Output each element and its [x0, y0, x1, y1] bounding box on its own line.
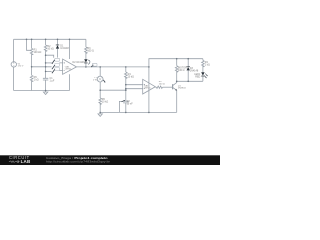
resistor R2b [30, 75, 33, 82]
logo capacitor glyph [16, 160, 20, 163]
transistor Q1 base bar [172, 84, 174, 89]
wire bus B output [77, 66, 149, 68]
wire OA2 output / R5 line [155, 86, 156, 88]
wire R2 top lead [45, 39, 47, 45]
diode D1 body [56, 45, 59, 49]
LED1 arrows [204, 74, 207, 78]
svg-text:10 kΩ: 10 kΩ [47, 47, 54, 50]
switch SW2 lever [52, 65, 55, 69]
resistor R5 [156, 86, 162, 88]
svg-text:D2 1N4148: D2 1N4148 [72, 61, 85, 64]
svg-text:RED: RED [195, 75, 200, 78]
LED bottom lead [202, 77, 204, 82]
wire R1 bottom to node [31, 54, 33, 67]
wire R6 bottom lead [99, 103, 101, 112]
wire R4b bottom / col [125, 77, 127, 100]
switch SW3 lever [52, 69, 55, 73]
wire D1 top lead [57, 39, 59, 44]
wire stub y62.9 [46, 62, 52, 64]
capacitor C2 [123, 101, 128, 103]
wire R5 to Q1 base [163, 86, 173, 88]
svg-text:1 kΩ: 1 kΩ [34, 78, 39, 81]
wire D3 leads [187, 59, 189, 82]
switch SW4 key box [92, 63, 97, 66]
svg-text:LM741: LM741 [65, 68, 72, 70]
svg-text:10 nF: 10 nF [127, 103, 134, 106]
svg-text:2N3904: 2N3904 [178, 88, 186, 90]
resistor R3 [85, 47, 88, 53]
wire C2 bottom lead [125, 103, 127, 113]
svg-text:100 Ω: 100 Ω [178, 69, 185, 72]
resistor R4r [202, 60, 205, 67]
wire OA2 minus long line [100, 89, 126, 91]
svg-text:100 Ω: 100 Ω [159, 83, 165, 85]
wire R1 top lead [31, 39, 33, 48]
logo squiggle [9, 161, 16, 163]
wire R4r top corner [202, 59, 204, 61]
ground at C1 [43, 91, 47, 95]
wire OA1 V- rail [69, 74, 71, 90]
wire D1 bottom lead [57, 49, 59, 58]
svg-text:10 kΩ: 10 kΩ [102, 101, 109, 104]
switch SW3 key box [55, 68, 60, 71]
op-amp OA2 +/- marks [144, 84, 145, 89]
op-amp OA2 [143, 79, 156, 94]
wire V1 top lead [13, 39, 15, 62]
wire R2b bottom lead [31, 81, 33, 91]
resistor R2 [44, 45, 47, 51]
svg-text:1 µF: 1 µF [50, 79, 55, 82]
switch SW2 key box [55, 63, 60, 66]
wire C2 side branch [119, 101, 122, 112]
wire R7 bottom lead [176, 71, 178, 81]
junction dots [26, 39, 189, 114]
svg-text:100 kΩ: 100 kΩ [34, 51, 42, 54]
capacitor C1 [43, 78, 48, 80]
wire R1 node to R2b [31, 67, 33, 76]
V1 plus minus [13, 62, 14, 66]
svg-text:http://circuitlab.com/c/p7483w: http://circuitlab.com/c/p7483wbd3qzy:br [46, 159, 110, 163]
diode D2 body [84, 59, 87, 63]
wire OA2 input line B [126, 88, 143, 90]
switch SW1 key box [55, 58, 60, 61]
wire OA2 rail [148, 67, 150, 113]
svg-text:LAB: LAB [21, 159, 31, 164]
LED LED1 body [201, 72, 204, 76]
svg-text:100 Ω: 100 Ω [87, 50, 94, 53]
wire OA2 input line A [126, 84, 143, 86]
svg-text:LM741: LM741 [144, 88, 151, 90]
wire R4b top lead [125, 67, 127, 72]
resistor R1 [30, 48, 33, 54]
wire stub y55.2 [46, 55, 54, 58]
transistor Q1 collector [173, 81, 177, 85]
wire left ground bus [14, 90, 70, 92]
op-amp OA1 [63, 59, 77, 74]
wire V1 bottom lead [13, 67, 15, 90]
wire R3 to D2 [85, 52, 87, 59]
svg-text:10 kΩ: 10 kΩ [128, 75, 135, 78]
wire C1 bottom lead [45, 80, 47, 91]
wire D2 to bus B [85, 63, 87, 67]
resistor R4b [125, 72, 128, 79]
wire R3 col corner [85, 39, 87, 47]
op-amp OA1 +/- marks [64, 62, 65, 70]
resistor R6 [99, 98, 102, 105]
wire OA1 V+ rail [69, 39, 71, 59]
svg-text:170 V: 170 V [18, 66, 24, 68]
resistor R7 [175, 66, 178, 73]
switch SW4 curve (D2 node) [88, 60, 90, 64]
diode D3 body [187, 66, 190, 70]
wire R2 bottom to stubs [45, 50, 47, 78]
wire L-loop left [27, 39, 32, 50]
wire top bus [14, 38, 86, 40]
lamp L1 [97, 76, 103, 82]
wire R7 col top [176, 59, 178, 66]
wire R4r to LED [202, 66, 204, 72]
switch SW4 lever arrow [92, 65, 94, 67]
bottom bus [100, 111, 177, 113]
ground at bottom bus [98, 112, 102, 116]
wire lamp col top [99, 67, 101, 76]
switch SW1 lever [52, 60, 55, 64]
transistor Q1 emitter [173, 88, 177, 113]
wire input line y66.8 [32, 66, 52, 68]
svg-text:1N4148: 1N4148 [60, 47, 69, 50]
wire lamp junction to R6 [99, 90, 101, 98]
wire riser and top-right bus [149, 59, 203, 67]
wire stub y71.4 [46, 70, 52, 72]
wire lamp to junction [99, 82, 101, 90]
switch SW6 lever (C2) [122, 100, 125, 102]
svg-text:1 kΩ: 1 kΩ [205, 63, 210, 66]
wire OA1 input stubs [59, 63, 62, 71]
voltage source V1 [11, 62, 16, 67]
footer bar [0, 155, 220, 165]
load node wire [177, 80, 203, 82]
switch SW5 lever (lamp) [103, 80, 105, 82]
